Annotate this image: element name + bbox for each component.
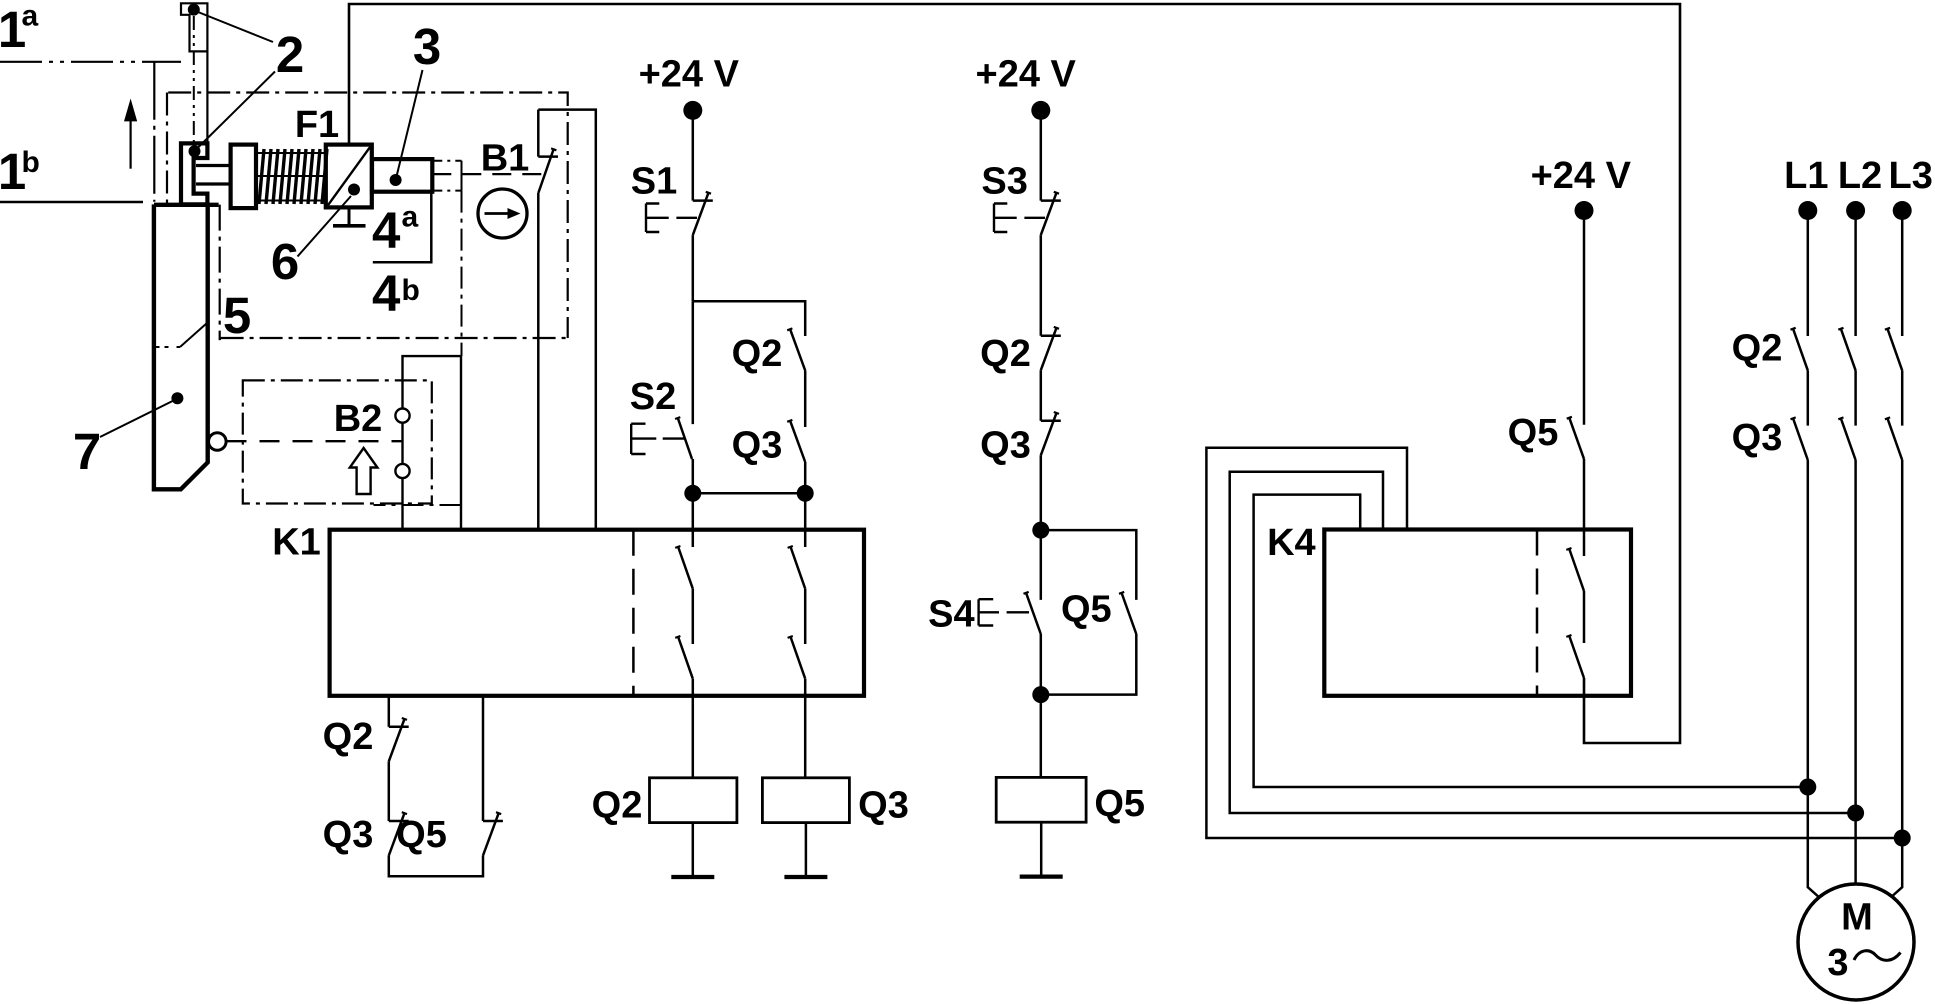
svg-text:b: b bbox=[402, 274, 420, 307]
svg-text:Q3: Q3 bbox=[858, 785, 909, 827]
contact Q3 auxiliary NO bbox=[787, 420, 792, 422]
switch S3 pushbutton bbox=[1041, 199, 1061, 202]
node junction above S4 bbox=[1032, 522, 1049, 539]
node junction L3 bbox=[1894, 830, 1911, 847]
contact Q2 main pole 1 bbox=[1791, 328, 1796, 330]
wire phase columns down bbox=[1808, 460, 1902, 838]
node dot 6 on valve bbox=[348, 184, 360, 196]
node +24V terminal left bbox=[683, 101, 702, 120]
relay K1 box bbox=[330, 530, 864, 696]
node centerline of bracket bbox=[193, 16, 195, 150]
wire coil Q5 to ground bbox=[1040, 822, 1043, 876]
wire between K4 contacts bbox=[1583, 591, 1586, 643]
wire L1 to Q2 bbox=[1807, 211, 1810, 337]
svg-text:Q3: Q3 bbox=[1732, 417, 1783, 459]
svg-text:6: 6 bbox=[271, 233, 299, 290]
contact K1 output 1 upper bbox=[675, 546, 680, 548]
contact Q3 feedback NC bbox=[389, 820, 409, 823]
svg-text:B2: B2 bbox=[334, 398, 383, 440]
wire Q2 to Q3 poles bbox=[1808, 370, 1902, 425]
node K4 divider dashed bbox=[1536, 530, 1539, 696]
svg-text:Q2: Q2 bbox=[323, 716, 374, 758]
wire L3 into motor bbox=[1891, 838, 1902, 897]
svg-text:Q2: Q2 bbox=[1732, 327, 1783, 369]
wire K1 to coil Q3 bbox=[804, 679, 807, 778]
wire Q2 to Q3 feedback bbox=[388, 761, 391, 821]
node phantom stub of rod bbox=[432, 160, 461, 162]
wire B1 loop to K1 bbox=[538, 110, 596, 530]
svg-text:a: a bbox=[22, 0, 39, 33]
wire L2 to Q2 bbox=[1854, 211, 1857, 337]
node pivot circle on lever bbox=[209, 433, 227, 451]
svg-text:4: 4 bbox=[372, 265, 401, 322]
svg-text:S2: S2 bbox=[630, 376, 676, 418]
node +24V terminal right bbox=[1575, 201, 1594, 220]
node B2 dash-dot enclosure bbox=[243, 380, 432, 503]
wire Q5 contact to K4 bbox=[1583, 459, 1586, 530]
node L1 terminal bbox=[1798, 201, 1817, 220]
node double arrow actuator of B2 bbox=[350, 448, 378, 494]
wire coil Q2 to ground bbox=[692, 823, 695, 877]
svg-text:+24 V: +24 V bbox=[1531, 155, 1632, 197]
contact Q3 main pole 1 bbox=[1791, 417, 1796, 419]
contact Q5 seal-in NO bbox=[1119, 592, 1124, 594]
wire branch to Q5 contact bbox=[1041, 530, 1137, 600]
node L2 terminal bbox=[1846, 201, 1865, 220]
coil Q3 bbox=[762, 778, 849, 823]
wire +24V to S1 bbox=[692, 110, 695, 200]
contact Q5 enable NO bbox=[1567, 417, 1572, 419]
svg-text:F1: F1 bbox=[295, 104, 339, 146]
wire top frame from valve F1 to K4 output bbox=[349, 4, 1680, 743]
svg-text:5: 5 bbox=[223, 287, 251, 344]
contact Q2 main pole 3 bbox=[1885, 328, 1890, 330]
contact K1 output 2 lower bbox=[788, 636, 793, 638]
wire S2 to junction bbox=[692, 459, 695, 493]
contact K4 output upper bbox=[1566, 548, 1571, 550]
svg-text:K4: K4 bbox=[1267, 522, 1316, 564]
wire S1 to branch bbox=[692, 235, 695, 301]
wire junction bar bbox=[693, 492, 805, 495]
relay K4 box bbox=[1324, 530, 1631, 696]
contact Q2 interlock NC bbox=[1041, 334, 1061, 337]
contact Q5 feedback NC bbox=[483, 820, 503, 823]
wire S4 to lower junction bbox=[1040, 634, 1043, 695]
svg-text:S3: S3 bbox=[981, 161, 1027, 203]
contact Q2 auxiliary NO bbox=[787, 328, 792, 330]
switch B1 flow switch bbox=[538, 155, 558, 158]
wire K1 feedback left leg bbox=[388, 696, 391, 727]
svg-text:Q5: Q5 bbox=[1061, 588, 1112, 630]
svg-text:L2: L2 bbox=[1838, 155, 1882, 197]
wire S3 to Q2 bbox=[1040, 235, 1043, 336]
contact Q2 main pole 2 bbox=[1838, 328, 1843, 330]
cylinder 3 bbox=[372, 159, 432, 192]
wire Q2 to Q3 interlock bbox=[1040, 370, 1043, 421]
node motor wave symbol bbox=[1854, 951, 1901, 961]
wire K4 contact entry bbox=[1583, 530, 1586, 557]
node junction dots above K1 bbox=[684, 485, 701, 502]
svg-text:+24 V: +24 V bbox=[976, 54, 1077, 96]
clamp C-bracket bbox=[181, 143, 207, 204]
switch S2 pushbutton bbox=[692, 301, 695, 424]
svg-text:3: 3 bbox=[413, 18, 441, 75]
switch S4 pushbutton NO bbox=[1040, 530, 1043, 600]
node K1 divider dashed bbox=[632, 530, 635, 696]
svg-text:B1: B1 bbox=[481, 137, 530, 179]
wire K4 loop 1 to L3 bbox=[1206, 448, 1902, 838]
wire K1 feedback right leg bbox=[482, 696, 485, 821]
rod piston bbox=[196, 166, 231, 185]
svg-text:7: 7 bbox=[73, 423, 101, 480]
svg-text:b: b bbox=[22, 146, 40, 179]
wire K4 loop 3 to L1 bbox=[1254, 495, 1808, 787]
node 1a reference line bbox=[0, 61, 181, 63]
node junction L2 bbox=[1847, 805, 1864, 822]
motor M circle bbox=[1798, 884, 1914, 1000]
wire L2 into motor bbox=[1854, 813, 1857, 884]
svg-text:Q3: Q3 bbox=[323, 814, 374, 856]
svg-text:3: 3 bbox=[1827, 942, 1848, 984]
ground below Q5 bbox=[1020, 874, 1063, 878]
sensor B2 loop wire bbox=[403, 356, 462, 530]
wire into K1 bbox=[692, 493, 695, 547]
svg-text:Q5: Q5 bbox=[1094, 783, 1145, 825]
sensor B2 contact circles bbox=[395, 409, 409, 423]
node L3 terminal bbox=[1893, 201, 1912, 220]
wire L1 into motor bbox=[1808, 787, 1819, 897]
flange block bbox=[231, 145, 256, 209]
svg-text:L1: L1 bbox=[1784, 155, 1828, 197]
node dot on clamp bbox=[189, 145, 201, 157]
wire between K1 contacts col1 bbox=[692, 589, 695, 644]
wire leader label 6 bbox=[298, 196, 352, 257]
svg-text:L3: L3 bbox=[1889, 155, 1933, 197]
wire +24V to Q5 contact bbox=[1583, 211, 1586, 425]
wire leader label 7 bbox=[100, 399, 177, 437]
node junction L1 bbox=[1799, 779, 1816, 796]
svg-text:Q3: Q3 bbox=[732, 424, 783, 466]
svg-text:+24 V: +24 V bbox=[639, 54, 740, 96]
wire Q5 to lower junction bbox=[1041, 634, 1137, 695]
svg-text:Q3: Q3 bbox=[980, 424, 1031, 466]
contact K1 output 2 upper bbox=[788, 546, 793, 548]
wire between K1 contacts col2 bbox=[804, 589, 807, 644]
node 4a compartment frame bbox=[373, 192, 432, 263]
wire coil Q3 to ground bbox=[805, 823, 808, 877]
wire +24V to S3 bbox=[1040, 110, 1043, 200]
node dot 3 bbox=[390, 174, 402, 186]
node 1b reference line bbox=[0, 201, 143, 203]
svg-text:M: M bbox=[1841, 897, 1873, 939]
wire leader label 3 bbox=[397, 70, 423, 177]
switch S1 pushbutton bbox=[693, 199, 713, 202]
wire K1 to coil Q2 bbox=[692, 679, 695, 778]
wire Q2 to Q3 bbox=[804, 371, 807, 428]
lever 7 bbox=[154, 203, 219, 207]
node enclosure 5 dash-dot boundary bbox=[168, 93, 568, 339]
valve F1 bbox=[326, 145, 372, 208]
wire guide edge bbox=[220, 205, 221, 339]
meter flow indicator circle bbox=[478, 189, 527, 238]
contact Q2 feedback NC bbox=[389, 726, 409, 729]
tank stub below valve bbox=[348, 207, 351, 224]
svg-text:S4: S4 bbox=[928, 594, 974, 636]
node dot 7 on lever bbox=[171, 392, 183, 404]
wire Q3 to junction bbox=[1040, 455, 1043, 530]
wire K4 loop 2 to L2 bbox=[1230, 472, 1856, 813]
svg-text:2: 2 bbox=[276, 26, 304, 83]
contact K1 output 1 lower bbox=[675, 636, 680, 638]
ground below Q2 bbox=[671, 875, 714, 879]
svg-text:a: a bbox=[402, 201, 419, 234]
node dash-dot frame around 4a 4b bbox=[461, 191, 463, 356]
node dot on bracket 2 bbox=[188, 4, 200, 16]
arrow motion indicator bbox=[130, 121, 132, 169]
wire feedback bottom bar bbox=[389, 856, 483, 877]
wire dashed link pivot to B2 bbox=[227, 440, 402, 442]
svg-text:Q5: Q5 bbox=[396, 814, 447, 856]
wire B1 to K1 bbox=[537, 193, 540, 530]
contact Q3 main pole 3 bbox=[1885, 417, 1890, 419]
wire dashed rod line to B1 bbox=[432, 173, 545, 175]
svg-text:4: 4 bbox=[372, 202, 401, 259]
wire L3 to Q2 bbox=[1901, 211, 1904, 337]
wire Q3 to junction bbox=[804, 462, 807, 493]
wire junction to coil Q5 bbox=[1040, 695, 1043, 778]
ground below Q3 bbox=[784, 875, 827, 879]
svg-text:Q5: Q5 bbox=[1508, 412, 1559, 454]
node +24V terminal middle bbox=[1031, 101, 1050, 120]
wire rail edge below bracket bbox=[206, 51, 208, 143]
coil Q2 bbox=[650, 778, 737, 823]
node phantom tilt line of lever bbox=[156, 346, 181, 348]
contact Q3 interlock NC bbox=[1041, 420, 1061, 423]
wire body left edge bbox=[153, 62, 155, 202]
svg-text:K1: K1 bbox=[272, 522, 321, 564]
contact K4 output lower bbox=[1566, 635, 1571, 637]
coil Q5 bbox=[996, 777, 1086, 822]
svg-text:Q2: Q2 bbox=[732, 333, 783, 375]
contact Q3 main pole 2 bbox=[1838, 417, 1843, 419]
wire leader from label 2 to clamp dot bbox=[195, 72, 276, 152]
svg-text:Q2: Q2 bbox=[592, 785, 643, 827]
bracket 2 (upper stop) bbox=[181, 3, 207, 51]
node junction below S4 bbox=[1032, 686, 1049, 703]
spring F1 return bbox=[256, 153, 326, 201]
svg-text:Q2: Q2 bbox=[980, 333, 1031, 375]
wire branch to Q2 contact bbox=[693, 301, 805, 336]
wire leader from bracket dot to label 2 bbox=[196, 11, 274, 42]
svg-text:S1: S1 bbox=[631, 161, 677, 203]
